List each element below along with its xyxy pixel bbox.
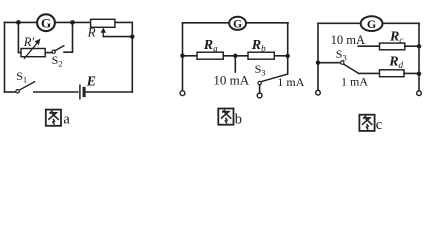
svg-text:10 mA: 10 mA xyxy=(213,73,249,88)
caption 图c xyxy=(359,115,382,133)
switch S2 pivot xyxy=(52,50,55,53)
wire: R box to top-right corner and right wire down xyxy=(115,22,132,92)
wire: bottom wire middle segment xyxy=(34,91,78,93)
wire: Rc branch free end to box xyxy=(358,45,379,47)
wire: battery to bottom-right corner xyxy=(86,91,132,93)
switch S3 lever (circuit b) xyxy=(261,74,288,82)
terminal (left binding post, circuit c) xyxy=(316,90,321,95)
switch S3 pivot contact xyxy=(258,81,261,84)
svg-text:b: b xyxy=(235,112,242,128)
resistor Rb xyxy=(248,52,274,59)
node: junction left wire / shunt branch xyxy=(180,54,184,58)
switch S1 lever xyxy=(19,82,34,91)
svg-text:1 mA: 1 mA xyxy=(277,75,304,89)
wire: Rc box to right wire xyxy=(405,45,419,47)
wire: left wire xyxy=(4,22,6,92)
node: junction of wiper wire and right wire xyxy=(130,35,134,39)
wire: R' box to switch S2 xyxy=(45,52,52,54)
svg-text:R: R xyxy=(87,25,96,40)
wire: right wire xyxy=(287,23,289,74)
wire: left wire xyxy=(182,23,184,91)
wire: top wire right segment xyxy=(246,22,288,24)
wire: top wire right segment xyxy=(383,22,419,24)
battery E long plate xyxy=(79,85,81,99)
rheostat R' (box) xyxy=(21,49,45,57)
galvanometer G (circuit a) xyxy=(37,14,55,31)
wire: bottom-left segment xyxy=(5,91,16,93)
wire: wiper wire to right wire xyxy=(103,36,132,38)
svg-text:R′: R′ xyxy=(23,35,35,49)
wire: left wire xyxy=(317,23,319,90)
wire: junction to Ra xyxy=(183,55,198,57)
wire: tap wire down xyxy=(234,56,236,72)
svg-text:E: E xyxy=(86,75,96,90)
node: junction right wire / shunt branch xyxy=(286,54,290,58)
galvanometer G (circuit c) xyxy=(361,16,383,31)
wire: S2 fixed contact to top wire xyxy=(64,22,73,52)
switch S3 lever (circuit c) xyxy=(344,64,359,73)
svg-text:c: c xyxy=(376,117,382,133)
caption 图a xyxy=(46,110,71,128)
svg-text:G: G xyxy=(367,17,376,31)
resistor Ra xyxy=(197,52,223,59)
node: junction Rc / right wire xyxy=(417,44,421,48)
node: junction top wire / S2 branch xyxy=(70,20,75,25)
resistor Rc xyxy=(380,43,405,50)
wire: top wire between G and R xyxy=(55,21,91,23)
switch S1 pivot xyxy=(16,90,19,93)
node: junction left wire / switch stub xyxy=(316,61,320,65)
rheostat R (slide rheostat box) xyxy=(91,19,115,27)
wire: top wire left segment xyxy=(318,22,361,24)
wire: Rb to right wire xyxy=(274,55,287,57)
switch S3 pivot (circuit c) xyxy=(341,61,344,64)
svg-text:G: G xyxy=(41,16,51,31)
resistor Rd xyxy=(380,70,405,77)
svg-text:a: a xyxy=(63,112,70,128)
wire: Ra to Rb xyxy=(223,55,248,57)
arrow through rheostat R' xyxy=(24,43,37,59)
node: junction top wire / R' branch xyxy=(16,20,21,25)
svg-text:G: G xyxy=(233,19,242,31)
galvanometer G (circuit b) xyxy=(229,17,246,31)
battery E short thick plate xyxy=(83,88,86,95)
terminal (right binding post, circuit c) xyxy=(417,91,422,96)
wire: Rd box to right wire xyxy=(404,72,419,74)
switch S2 lever xyxy=(55,46,64,51)
wire: stub to S3 pivot xyxy=(318,62,341,64)
node: junction Rd / right wire xyxy=(417,72,421,76)
terminal (lower binding post, circuit b) xyxy=(257,93,262,98)
wire: top wire left segment (corner to G) xyxy=(5,21,38,23)
wiper arrow of rheostat R xyxy=(102,30,104,37)
wire: from junction down to R' box xyxy=(18,22,21,52)
svg-text:1 mA: 1 mA xyxy=(341,75,368,89)
node: junction of tap (10 mA) xyxy=(233,54,237,58)
wire: right wire xyxy=(418,23,420,91)
caption 图b xyxy=(218,109,242,128)
wire: top wire left segment xyxy=(183,22,230,24)
wire: S3 to lower terminal xyxy=(259,85,261,93)
terminal (left binding post, circuit b) xyxy=(180,91,185,96)
svg-text:10 mA: 10 mA xyxy=(331,33,365,47)
wire: lever end to Rd box xyxy=(359,72,380,74)
